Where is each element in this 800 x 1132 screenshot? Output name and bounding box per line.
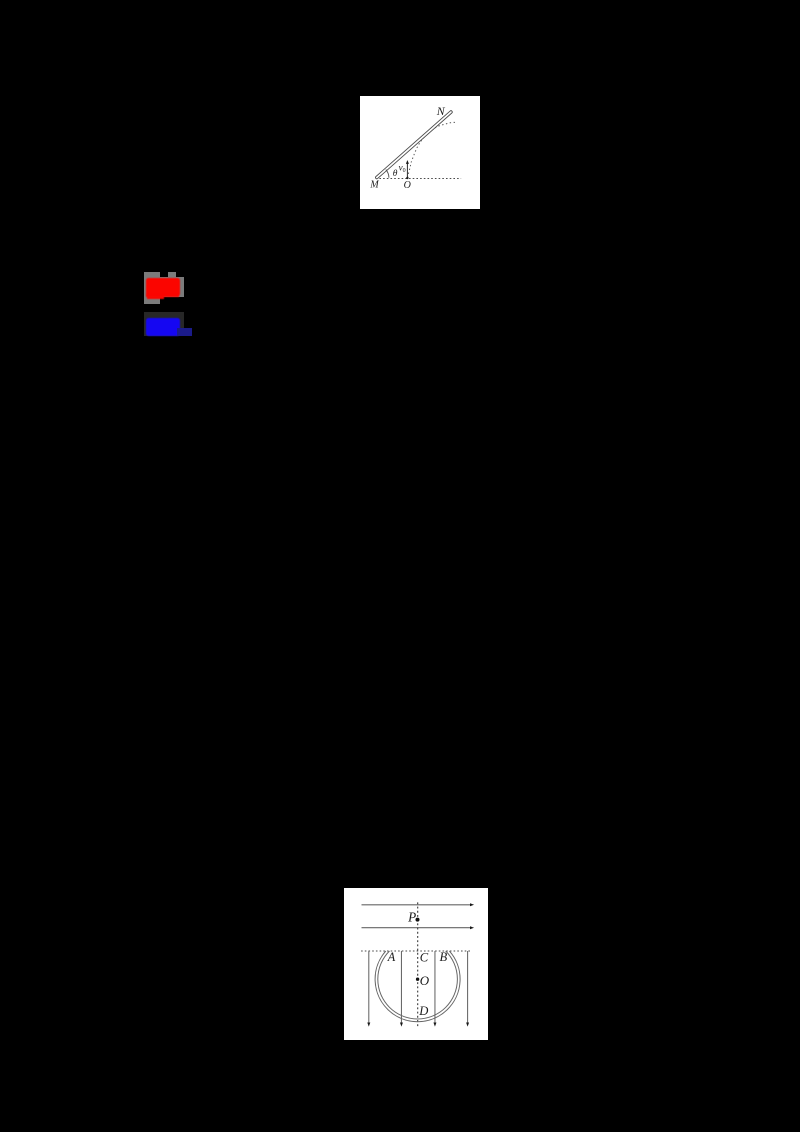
dashed trajectory curve from O: [407, 122, 455, 177]
svg-text:D: D: [418, 1004, 428, 1018]
svg-text:P: P: [407, 909, 416, 924]
svg-text:O: O: [419, 972, 429, 987]
svg-text:θ: θ: [392, 169, 397, 179]
blue analysis text blob on dark box: [144, 312, 184, 336]
center dot O: [416, 977, 419, 980]
svg-text:M: M: [369, 179, 379, 190]
four downward field arrows: [368, 951, 467, 1023]
blue analysis text: [146, 318, 181, 336]
svg-text:C: C: [419, 950, 428, 964]
horizontal dotted boundary line: [361, 950, 471, 952]
svg-text:v0: v0: [398, 162, 405, 173]
dotted baseline through M and O: [375, 177, 460, 179]
figure 1: rod MN with projectile trajectory: [360, 96, 480, 209]
outer circle arc (ring outer): [375, 951, 460, 1022]
figure 2: circular region in fields: [344, 888, 488, 1041]
second horizontal field arrow: [361, 926, 470, 928]
navy secondary text: [177, 328, 192, 336]
point P dot: [415, 917, 419, 921]
inner circle arc (ring inner): [377, 951, 457, 1019]
svg-text:O: O: [403, 180, 410, 191]
top horizontal field arrow: [361, 903, 470, 905]
svg-text:N: N: [435, 104, 445, 118]
velocity arrow v0 at O: [406, 162, 408, 178]
svg-text:A: A: [386, 949, 395, 963]
rod MN (outlined bar): [375, 110, 453, 179]
svg-text:B: B: [439, 949, 447, 963]
angle arc theta at M: [385, 169, 388, 177]
vertical dotted axis through P,C,O,D: [416, 902, 418, 1028]
red answer text: [146, 278, 181, 297]
red answer text blob on gray highlight: [144, 272, 160, 304]
